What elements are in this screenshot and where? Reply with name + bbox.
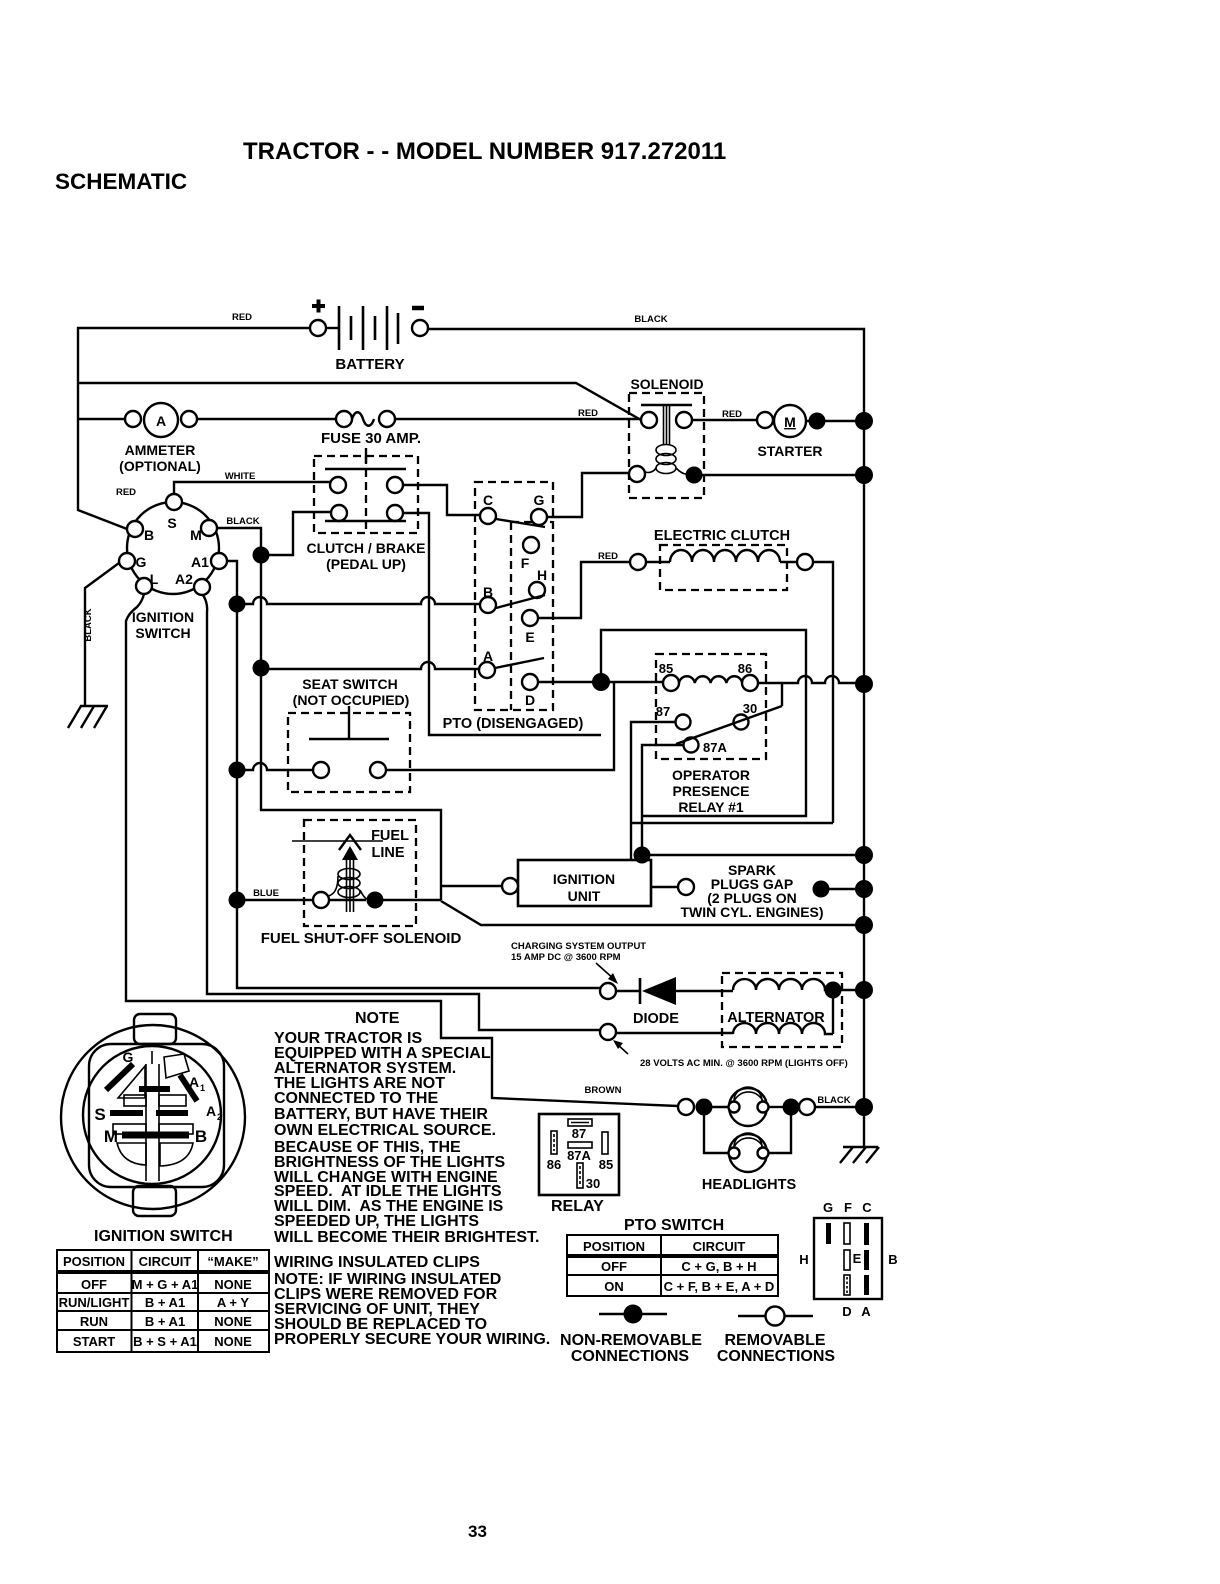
svg-text:28 VOLTS AC MIN. @ 3600 RPM (L: 28 VOLTS AC MIN. @ 3600 RPM (LIGHTS OFF): [640, 1058, 848, 1069]
svg-text:F: F: [844, 1200, 852, 1215]
svg-text:(OPTIONAL): (OPTIONAL): [119, 458, 201, 474]
svg-text:BLACK: BLACK: [817, 1095, 850, 1106]
svg-text:ON: ON: [604, 1279, 624, 1294]
svg-text:B + A1: B + A1: [145, 1314, 185, 1329]
svg-text:A: A: [189, 1074, 199, 1090]
svg-text:B: B: [144, 527, 154, 543]
svg-text:CONNECTIONS: CONNECTIONS: [571, 1348, 690, 1365]
svg-text:1: 1: [200, 1083, 205, 1093]
svg-text:SEAT SWITCH: SEAT SWITCH: [302, 676, 397, 692]
svg-text:“MAKE”: “MAKE”: [207, 1254, 258, 1269]
svg-text:87A: 87A: [703, 740, 727, 755]
svg-text:OWN ELECTRICAL SOURCE.: OWN ELECTRICAL SOURCE.: [274, 1122, 496, 1139]
svg-text:REMOVABLE: REMOVABLE: [724, 1332, 825, 1349]
svg-text:B: B: [195, 1127, 207, 1146]
svg-text:BATTERY: BATTERY: [335, 356, 404, 373]
svg-text:A: A: [861, 1304, 871, 1319]
svg-text:RED: RED: [722, 409, 742, 420]
svg-text:SWITCH: SWITCH: [135, 625, 190, 641]
svg-text:86: 86: [738, 661, 752, 676]
svg-text:A: A: [206, 1103, 216, 1119]
svg-text:SOLENOID: SOLENOID: [630, 376, 703, 392]
svg-text:A: A: [483, 648, 493, 664]
svg-text:C + F, B + E, A + D: C + F, B + E, A + D: [664, 1279, 775, 1294]
svg-text:E: E: [525, 629, 534, 645]
svg-text:G: G: [534, 492, 545, 508]
svg-text:30: 30: [586, 1176, 600, 1191]
svg-text:BLUE: BLUE: [253, 888, 279, 899]
svg-text:PRESENCE: PRESENCE: [672, 783, 749, 799]
svg-text:LINE: LINE: [371, 845, 404, 861]
svg-text:WILL BECOME THEIR BRIGHTEST.: WILL BECOME THEIR BRIGHTEST.: [274, 1229, 539, 1246]
svg-text:B + S + A1: B + S + A1: [133, 1334, 197, 1349]
svg-text:NONE: NONE: [214, 1314, 252, 1329]
svg-text:WIRING INSULATED CLIPS: WIRING INSULATED CLIPS: [274, 1254, 480, 1271]
svg-text:87A: 87A: [567, 1148, 591, 1163]
svg-text:FUEL SHUT-OFF SOLENOID: FUEL SHUT-OFF SOLENOID: [261, 930, 462, 947]
svg-text:B + A1: B + A1: [145, 1295, 185, 1310]
svg-text:POSITION: POSITION: [583, 1239, 645, 1254]
svg-text:E: E: [853, 1251, 862, 1266]
svg-text:DIODE: DIODE: [633, 1011, 679, 1027]
svg-text:SCHEMATIC: SCHEMATIC: [55, 169, 187, 194]
svg-text:BLACK: BLACK: [634, 314, 667, 325]
svg-text:BATTERY, BUT HAVE THEIR: BATTERY, BUT HAVE THEIR: [274, 1106, 488, 1123]
svg-text:30: 30: [743, 701, 757, 716]
svg-text:(PEDAL UP): (PEDAL UP): [326, 556, 406, 572]
svg-text:A + Y: A + Y: [217, 1295, 249, 1310]
svg-text:RELAY #1: RELAY #1: [678, 799, 744, 815]
svg-text:85: 85: [599, 1157, 613, 1172]
svg-text:IGNITION: IGNITION: [553, 871, 615, 887]
svg-text:S: S: [94, 1105, 105, 1124]
svg-text:OFF: OFF: [601, 1259, 627, 1274]
svg-text:2: 2: [217, 1112, 222, 1122]
svg-text:WHITE: WHITE: [225, 471, 256, 482]
svg-text:TRACTOR - - MODEL NUMBER 917.2: TRACTOR - - MODEL NUMBER 917.272011: [243, 138, 726, 165]
svg-text:M: M: [784, 414, 796, 430]
svg-text:87: 87: [572, 1126, 586, 1141]
svg-text:G: G: [136, 554, 147, 570]
svg-text:A1: A1: [191, 554, 209, 570]
svg-text:NON-REMOVABLE: NON-REMOVABLE: [560, 1332, 702, 1349]
svg-text:F: F: [521, 555, 530, 571]
svg-text:D: D: [842, 1304, 851, 1319]
svg-text:G: G: [123, 1049, 134, 1065]
svg-text:OPERATOR: OPERATOR: [672, 767, 750, 783]
svg-text:(NOT OCCUPIED): (NOT OCCUPIED): [293, 692, 410, 708]
svg-text:85: 85: [659, 661, 673, 676]
svg-text:CLUTCH / BRAKE: CLUTCH / BRAKE: [307, 540, 426, 556]
svg-text:86: 86: [547, 1157, 561, 1172]
svg-text:BROWN: BROWN: [585, 1085, 622, 1096]
svg-text:START: START: [73, 1334, 115, 1349]
svg-text:S: S: [167, 515, 176, 531]
svg-text:C + G, B + H: C + G, B + H: [681, 1259, 756, 1274]
svg-text:TWIN CYL. ENGINES): TWIN CYL. ENGINES): [680, 904, 823, 920]
svg-text:IGNITION SWITCH: IGNITION SWITCH: [94, 1228, 233, 1245]
svg-text:AMMETER: AMMETER: [125, 442, 196, 458]
svg-text:RUN: RUN: [80, 1314, 108, 1329]
svg-text:ELECTRIC CLUTCH: ELECTRIC CLUTCH: [654, 528, 790, 544]
svg-text:G: G: [823, 1200, 833, 1215]
svg-text:STARTER: STARTER: [757, 443, 822, 459]
svg-text:33: 33: [468, 1522, 487, 1541]
svg-text:UNIT: UNIT: [568, 888, 601, 904]
svg-text:NONE: NONE: [214, 1334, 252, 1349]
svg-text:B: B: [888, 1252, 897, 1267]
svg-text:CHARGING SYSTEM OUTPUT: CHARGING SYSTEM OUTPUT: [511, 941, 646, 952]
svg-text:A: A: [156, 413, 166, 429]
svg-text:RED: RED: [232, 312, 252, 323]
svg-text:D: D: [525, 692, 535, 708]
svg-text:RELAY: RELAY: [551, 1198, 604, 1215]
svg-text:RED: RED: [598, 551, 618, 562]
svg-text:PROPERLY SECURE YOUR WIRING.: PROPERLY SECURE YOUR WIRING.: [274, 1331, 550, 1348]
svg-text:CONNECTIONS: CONNECTIONS: [717, 1348, 836, 1365]
svg-text:H: H: [537, 567, 547, 583]
svg-text:POSITION: POSITION: [63, 1254, 125, 1269]
svg-text:CIRCUIT: CIRCUIT: [693, 1239, 746, 1254]
svg-text:H: H: [799, 1252, 808, 1267]
svg-text:M + G + A1: M + G + A1: [132, 1277, 199, 1292]
svg-text:RUN/LIGHT: RUN/LIGHT: [59, 1295, 130, 1310]
svg-text:87: 87: [656, 704, 670, 719]
svg-text:B: B: [483, 584, 493, 600]
svg-text:BLACK: BLACK: [226, 516, 259, 527]
svg-text:C: C: [483, 492, 493, 508]
svg-text:OFF: OFF: [81, 1277, 107, 1292]
svg-text:CONNECTED TO THE: CONNECTED TO THE: [274, 1090, 438, 1107]
svg-text:HEADLIGHTS: HEADLIGHTS: [702, 1177, 797, 1193]
svg-text:NOTE: NOTE: [355, 1010, 400, 1027]
svg-text:M: M: [104, 1127, 118, 1146]
svg-text:IGNITION: IGNITION: [132, 609, 194, 625]
svg-text:PTO (DISENGAGED): PTO (DISENGAGED): [443, 716, 584, 732]
svg-text:CIRCUIT: CIRCUIT: [139, 1254, 192, 1269]
svg-text:RED: RED: [578, 408, 598, 419]
svg-text:RED: RED: [116, 487, 136, 498]
svg-text:L: L: [150, 571, 159, 587]
svg-text:15 AMP DC @ 3600 RPM: 15 AMP DC @ 3600 RPM: [511, 952, 621, 963]
svg-text:C: C: [862, 1200, 872, 1215]
svg-text:M: M: [190, 527, 202, 543]
svg-text:SPEEDED UP, THE LIGHTS: SPEEDED UP, THE LIGHTS: [274, 1213, 479, 1230]
svg-text:NONE: NONE: [214, 1277, 252, 1292]
svg-text:PTO SWITCH: PTO SWITCH: [624, 1217, 724, 1234]
svg-text:BLACK: BLACK: [83, 608, 94, 641]
svg-text:A2: A2: [175, 571, 193, 587]
svg-text:FUSE 30 AMP.: FUSE 30 AMP.: [321, 430, 421, 447]
